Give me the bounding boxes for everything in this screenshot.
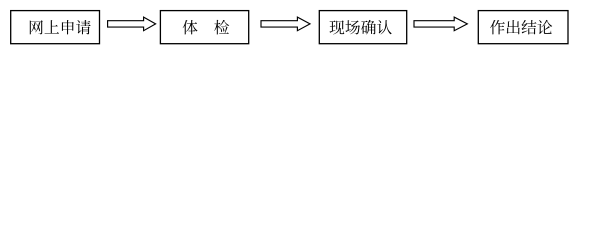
text glyph 网 xyxy=(30,20,43,34)
label 现场确认 xyxy=(330,20,392,35)
text glyph 论 xyxy=(537,20,552,34)
process box 1 (网上申请) xyxy=(11,11,100,44)
flow arrow 2 xyxy=(261,17,310,31)
text glyph 确 xyxy=(361,20,376,35)
text glyph 出 xyxy=(507,20,520,34)
text glyph 体 xyxy=(183,20,198,34)
background xyxy=(0,0,591,58)
process box 3 (现场确认) xyxy=(319,11,406,44)
label 作出结论 xyxy=(490,20,552,35)
text glyph 现 xyxy=(330,20,345,34)
text glyph 请 xyxy=(76,20,91,34)
process box 2 (体检) xyxy=(160,11,248,44)
text glyph 场 xyxy=(345,20,360,34)
label 体检 xyxy=(183,20,229,35)
text glyph 作 xyxy=(490,20,505,34)
text glyph 检 xyxy=(214,20,229,35)
process box 4 (作出结论) xyxy=(478,11,568,44)
flow arrow 3 xyxy=(414,17,467,31)
label 网上申请 xyxy=(30,20,91,35)
text glyph 结 xyxy=(522,20,537,34)
flow arrow 1 xyxy=(108,17,156,31)
text glyph 申 xyxy=(62,20,74,34)
text glyph 认 xyxy=(377,20,392,34)
text glyph 上 xyxy=(45,20,60,34)
